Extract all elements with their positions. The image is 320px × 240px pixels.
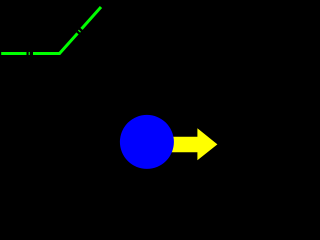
ball (blue circle) xyxy=(120,115,174,169)
trajectory line, corner dash (horizontal into diagonal) xyxy=(33,33,78,53)
trajectory line, diagonal dot xyxy=(78,29,82,33)
velocity arrow (yellow) xyxy=(165,128,217,160)
trajectory line, horizontal dot xyxy=(29,52,30,55)
trajectory line, diagonal end dash xyxy=(82,7,102,29)
trajectory line (green dash-dot), horizontal dash 1 xyxy=(1,52,26,55)
